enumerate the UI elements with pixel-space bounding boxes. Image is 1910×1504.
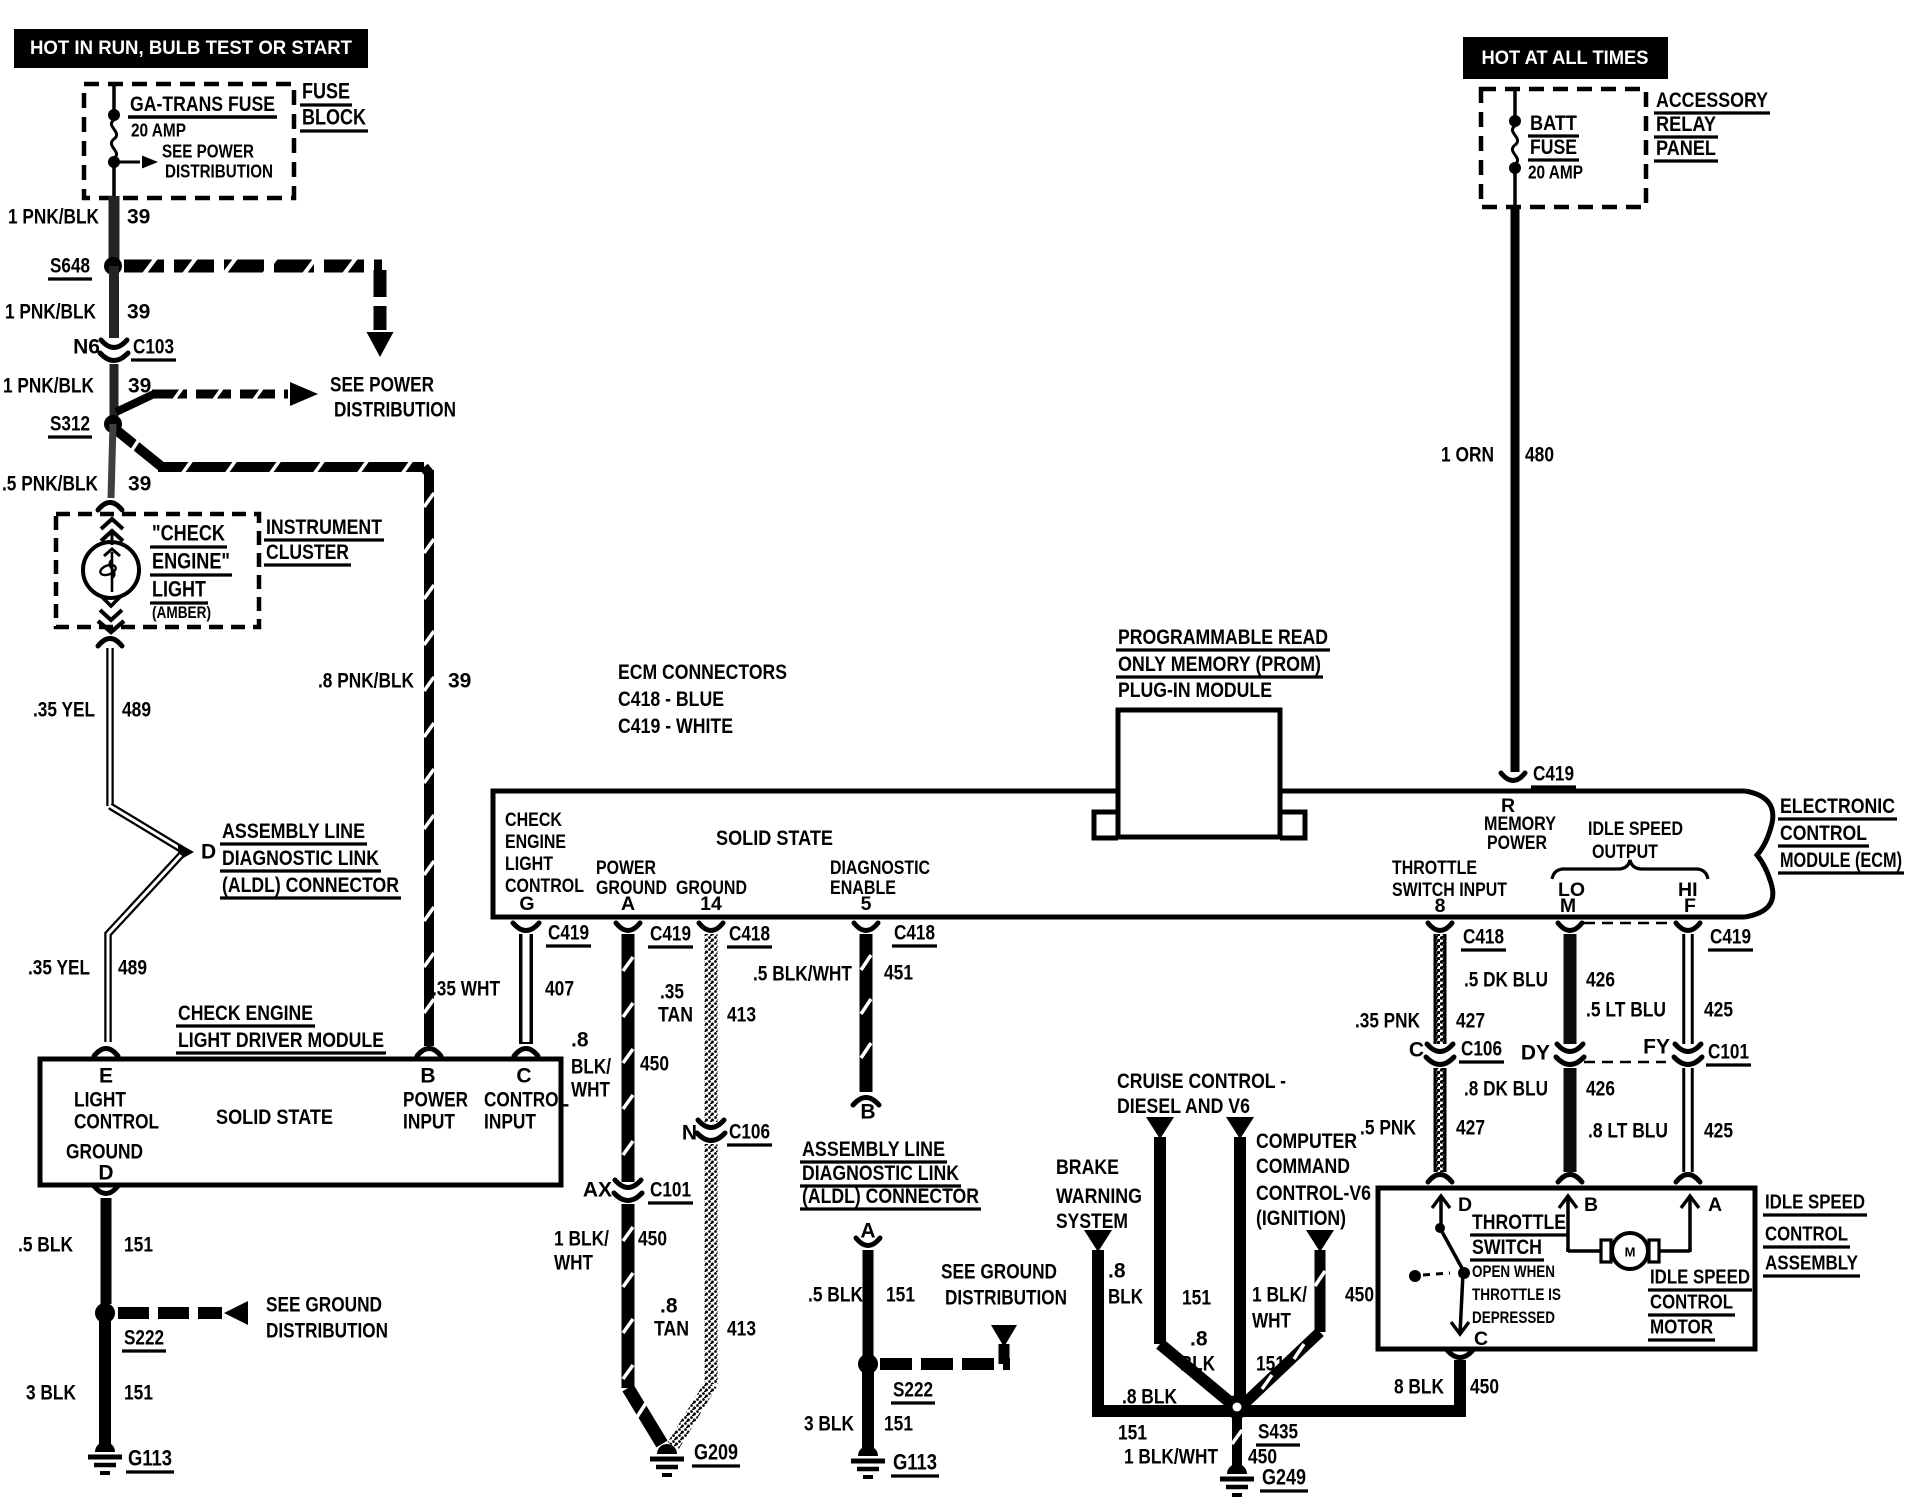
svg-text:C: C (1474, 1328, 1488, 1350)
wire .35 YEL 489 (cluster to ALDL D) (33, 648, 181, 849)
svg-text:G113: G113 (893, 1450, 937, 1475)
svg-text:WHT: WHT (1252, 1310, 1291, 1333)
connector C419 (R terminal) (1501, 763, 1576, 788)
wire 1 BLK/WHT 450 (S435 to G249) (1118, 1415, 1277, 1469)
svg-text:.5 PNK/BLK: .5 PNK/BLK (2, 473, 98, 496)
svg-text:DIAGNOSTIC LINK: DIAGNOSTIC LINK (802, 1161, 959, 1185)
svg-text:D: D (201, 841, 216, 864)
svg-text:(IGNITION): (IGNITION) (1256, 1206, 1346, 1230)
svg-text:1 PNK/BLK: 1 PNK/BLK (3, 375, 94, 398)
svg-text:SEE POWER: SEE POWER (330, 374, 434, 397)
svg-text:LIGHT: LIGHT (505, 853, 553, 875)
svg-text:450: 450 (640, 1053, 669, 1076)
svg-text:(AMBER): (AMBER) (152, 604, 211, 622)
svg-text:G209: G209 (694, 1440, 738, 1465)
svg-text:1 PNK/BLK: 1 PNK/BLK (5, 301, 96, 324)
svg-text:.8 LT BLU: .8 LT BLU (1588, 1120, 1668, 1143)
svg-text:BLK/: BLK/ (571, 1056, 611, 1079)
svg-text:S648: S648 (50, 255, 90, 278)
svg-text:151: 151 (124, 1234, 153, 1257)
wire 1 BLK/WHT 450 (ECM A to C101) (623, 934, 633, 1182)
svg-text:BLK: BLK (1180, 1353, 1215, 1376)
svg-text:DIAGNOSTIC: DIAGNOSTIC (830, 857, 930, 879)
wire .8 DK BLU 426 (DY to idle box B) (1464, 1068, 1615, 1182)
svg-text:427: 427 (1456, 1010, 1485, 1033)
check engine light driver module title (176, 1001, 386, 1053)
wire 3 BLK 151 (S222 to G113) (26, 1320, 153, 1446)
wire .8 LT BLU 425 (FY to idle box A) (1588, 1068, 1733, 1182)
svg-text:MOTOR: MOTOR (1650, 1316, 1713, 1339)
idle speed control motor label (1648, 1266, 1752, 1341)
svg-text:1 BLK/: 1 BLK/ (1252, 1284, 1307, 1307)
computer command control wire 1 BLK/WHT 450 (1246, 1230, 1374, 1402)
svg-text:C106: C106 (729, 1121, 770, 1144)
svg-text:C106: C106 (1461, 1038, 1502, 1061)
svg-text:WARNING: WARNING (1056, 1184, 1142, 1208)
svg-text:C419 - WHITE: C419 - WHITE (618, 714, 733, 738)
ALDL connector label (220, 819, 401, 898)
svg-text:S312: S312 (50, 413, 90, 436)
svg-text:MODULE (ECM): MODULE (ECM) (1780, 848, 1902, 872)
svg-text:DISTRIBUTION: DISTRIBUTION (334, 399, 456, 422)
throttle switch (1409, 1223, 1488, 1350)
svg-text:GA-TRANS FUSE: GA-TRANS FUSE (130, 92, 275, 116)
svg-text:151: 151 (1182, 1287, 1211, 1310)
svg-text:HOT AT ALL TIMES: HOT AT ALL TIMES (1482, 47, 1649, 69)
svg-text:LIGHT DRIVER MODULE: LIGHT DRIVER MODULE (178, 1028, 384, 1052)
electronic control module (ECM) box (493, 791, 1773, 917)
ECM label (1778, 794, 1904, 873)
svg-text:5: 5 (861, 893, 872, 915)
terminal D arrow (1432, 1194, 1472, 1224)
svg-text:TAN: TAN (654, 1318, 689, 1341)
wire .5 PNK/BLK 39 (S312 to cluster) (2, 424, 151, 498)
svg-text:SOLID STATE: SOLID STATE (216, 1105, 333, 1129)
svg-text:INPUT: INPUT (403, 1111, 455, 1134)
splice S222 (left) (95, 1303, 166, 1351)
see ground distribution link (middle) (880, 1261, 1067, 1365)
svg-text:451: 451 (884, 962, 913, 985)
.8 BLK/WHT 450 label (A wire upper) (571, 1029, 669, 1102)
wire .35 PNK 427 (ECM 8 to C106) (1355, 934, 1485, 1044)
connector C418 (terminal 8) (1428, 923, 1506, 950)
connector C418 (terminal 5) (854, 922, 937, 947)
see power distribution arrow (from S312) (116, 374, 456, 422)
svg-text:C418: C418 (1463, 926, 1504, 949)
PROM label (1116, 625, 1330, 702)
svg-text:ASSEMBLY LINE: ASSEMBLY LINE (222, 819, 365, 843)
svg-text:ONLY MEMORY (PROM): ONLY MEMORY (PROM) (1118, 652, 1321, 676)
svg-text:D: D (1458, 1194, 1472, 1216)
svg-text:151: 151 (1118, 1422, 1147, 1445)
svg-text:POWER: POWER (403, 1089, 468, 1112)
svg-text:SWITCH: SWITCH (1472, 1235, 1542, 1259)
wire .5 DK BLU 426 (ECM M to DY) (1464, 934, 1615, 1044)
svg-text:BLK: BLK (1108, 1286, 1143, 1309)
splice S435 (1225, 1395, 1300, 1445)
svg-text:.5 BLK/WHT: .5 BLK/WHT (753, 963, 852, 986)
svg-text:.35 PNK: .35 PNK (1355, 1010, 1420, 1033)
svg-text:450: 450 (1470, 1376, 1499, 1399)
svg-text:DY: DY (1521, 1042, 1550, 1065)
svg-text:BRAKE: BRAKE (1056, 1155, 1119, 1179)
wire .35 TAN 413 (ECM 14 to C106) (658, 934, 756, 1122)
instrument cluster box (56, 514, 384, 627)
svg-text:B: B (1584, 1194, 1598, 1216)
svg-text:G249: G249 (1262, 1465, 1306, 1490)
svg-text:.5 PNK: .5 PNK (1360, 1117, 1416, 1140)
header HOT AT ALL TIMES (1463, 37, 1668, 79)
svg-text:PLUG-IN MODULE: PLUG-IN MODULE (1118, 678, 1272, 702)
svg-text:C419: C419 (1710, 926, 1751, 949)
ALDL terminal A (856, 1220, 880, 1246)
svg-text:.8 PNK/BLK: .8 PNK/BLK (318, 670, 414, 693)
connector C418 (terminal 14) (699, 923, 772, 948)
svg-text:(ALDL) CONNECTOR: (ALDL) CONNECTOR (222, 873, 399, 897)
throttle switch label (1470, 1210, 1568, 1327)
svg-text:SEE POWER: SEE POWER (162, 141, 254, 162)
check engine light label (150, 521, 232, 623)
svg-text:THROTTLE: THROTTLE (1392, 857, 1477, 879)
svg-text:TAN: TAN (658, 1004, 693, 1027)
ground G249 (1220, 1464, 1308, 1495)
svg-text:413: 413 (727, 1004, 756, 1027)
svg-text:39: 39 (127, 206, 150, 229)
dashed link S648 to power distribution (arrow down) (124, 258, 394, 357)
svg-text:1 ORN: 1 ORN (1441, 444, 1494, 467)
PROM plug-in module box (1094, 710, 1305, 838)
svg-text:.5 DK BLU: .5 DK BLU (1464, 969, 1548, 992)
svg-text:G113: G113 (128, 1446, 172, 1471)
svg-text:C419: C419 (548, 922, 589, 945)
svg-text:IDLE SPEED: IDLE SPEED (1588, 818, 1683, 840)
svg-text:CRUISE CONTROL -: CRUISE CONTROL - (1117, 1069, 1286, 1093)
svg-text:CONTROL: CONTROL (1765, 1223, 1848, 1246)
splice S648 (48, 255, 122, 280)
wire .8 PNK/BLK 39 (S312 to driver module B) (115, 429, 471, 1046)
splice S312 (48, 413, 122, 438)
svg-text:S222: S222 (893, 1379, 933, 1402)
svg-text:20 AMP: 20 AMP (131, 120, 186, 141)
svg-text:413: 413 (727, 1318, 756, 1341)
svg-text:SOLID STATE: SOLID STATE (716, 826, 833, 850)
svg-text:ASSEMBLY: ASSEMBLY (1765, 1252, 1858, 1275)
svg-text:G: G (519, 893, 534, 915)
wire 1 ORN 480 (batt fuse to ECM R) (1441, 205, 1554, 772)
svg-text:INPUT: INPUT (484, 1111, 536, 1134)
svg-text:"CHECK: "CHECK (152, 521, 225, 546)
connector C106 (C) (1409, 1038, 1504, 1065)
connector (idle box C) (1447, 1350, 1473, 1358)
ground G209 (650, 1440, 740, 1476)
svg-text:DEPRESSED: DEPRESSED (1472, 1309, 1555, 1327)
svg-text:450: 450 (638, 1228, 667, 1251)
svg-text:FUSE: FUSE (302, 79, 350, 104)
svg-text:ECM CONNECTORS: ECM CONNECTORS (618, 660, 787, 684)
header HOT IN RUN BULB TEST OR START (14, 29, 368, 68)
svg-text:POWER: POWER (1487, 832, 1547, 854)
svg-text:AX: AX (583, 1179, 612, 1202)
svg-text:8: 8 (1435, 895, 1446, 917)
svg-text:PROGRAMMABLE READ: PROGRAMMABLE READ (1118, 625, 1328, 649)
svg-text:1 BLK/: 1 BLK/ (554, 1228, 609, 1251)
svg-text:GROUND: GROUND (66, 1141, 143, 1164)
svg-text:C418: C418 (729, 923, 770, 946)
svg-text:489: 489 (118, 957, 147, 980)
check engine light driver module box (40, 1059, 569, 1185)
svg-text:DISTRIBUTION: DISTRIBUTION (266, 1320, 388, 1343)
fuse block label (300, 79, 368, 132)
ground G113 (middle) (851, 1446, 939, 1477)
svg-text:.35: .35 (660, 981, 684, 1004)
svg-text:425: 425 (1704, 1120, 1733, 1143)
svg-text:ELECTRONIC: ELECTRONIC (1780, 794, 1895, 818)
svg-text:39: 39 (128, 473, 151, 496)
svg-text:CONTROL: CONTROL (74, 1111, 159, 1134)
accessory relay panel label (1654, 88, 1770, 161)
connector (cluster output) (98, 639, 122, 647)
connector (cluster input) (98, 503, 122, 511)
svg-text:IDLE SPEED: IDLE SPEED (1765, 1191, 1865, 1214)
svg-text:C418 - BLUE: C418 - BLUE (618, 687, 724, 711)
see ground distribution link (left) (118, 1294, 388, 1343)
connector DY (1521, 1042, 1666, 1065)
svg-text:C101: C101 (1708, 1041, 1749, 1064)
svg-text:480: 480 (1525, 444, 1554, 467)
svg-text:450: 450 (1345, 1284, 1374, 1307)
svg-text:1 BLK/WHT: 1 BLK/WHT (1124, 1446, 1218, 1469)
cruise control wire (left) 151 (1146, 1117, 1232, 1404)
svg-text:CONTROL-V6: CONTROL-V6 (1256, 1181, 1371, 1205)
svg-text:20 AMP: 20 AMP (1528, 162, 1583, 183)
svg-text:IDLE SPEED: IDLE SPEED (1650, 1266, 1750, 1289)
svg-text:.8 BLK: .8 BLK (1122, 1386, 1177, 1409)
svg-text:ACCESSORY: ACCESSORY (1656, 88, 1768, 112)
svg-text:POWER: POWER (596, 857, 656, 879)
svg-text:LIGHT: LIGHT (74, 1089, 126, 1112)
ECM internal labels (right) (1392, 795, 1708, 917)
svg-text:D: D (98, 1162, 113, 1185)
connector C106 (N) (682, 1120, 772, 1145)
svg-text:B: B (420, 1065, 435, 1088)
svg-text:CONTROL: CONTROL (505, 875, 584, 897)
svg-text:425: 425 (1704, 999, 1733, 1022)
svg-text:.5 LT BLU: .5 LT BLU (1586, 999, 1666, 1022)
svg-text:CONTROL: CONTROL (484, 1089, 569, 1112)
splice S222 (middle) (858, 1354, 935, 1403)
svg-text:INSTRUMENT: INSTRUMENT (266, 515, 382, 539)
svg-text:.8: .8 (1190, 1328, 1208, 1351)
wire 1 PNK/BLK 39 (S648 to C103) (5, 266, 150, 338)
svg-text:DIAGNOSTIC LINK: DIAGNOSTIC LINK (222, 846, 379, 870)
svg-text:C: C (516, 1065, 531, 1088)
svg-text:BLOCK: BLOCK (302, 105, 366, 130)
svg-text:DISTRIBUTION: DISTRIBUTION (945, 1287, 1067, 1310)
svg-text:.35 WHT: .35 WHT (432, 978, 500, 1001)
wire .5 BLK/WHT 451 (ECM 5 to ALDL B) (753, 934, 913, 1124)
svg-text:FUSE: FUSE (1530, 135, 1577, 159)
ALDL connector D terminal (178, 841, 216, 864)
wire 3 BLK 151 (S222 to G113 middle) (804, 1370, 913, 1450)
svg-text:A: A (860, 1220, 875, 1243)
svg-text:S222: S222 (124, 1327, 164, 1350)
svg-text:.5 BLK: .5 BLK (18, 1234, 73, 1257)
svg-text:SWITCH INPUT: SWITCH INPUT (1392, 879, 1507, 901)
svg-text:427: 427 (1456, 1117, 1485, 1140)
svg-text:SYSTEM: SYSTEM (1056, 1209, 1128, 1233)
svg-text:COMPUTER: COMPUTER (1256, 1129, 1357, 1153)
svg-text:3 BLK: 3 BLK (26, 1382, 76, 1405)
accessory relay panel (BATT FUSE 20A) (1481, 89, 1646, 207)
svg-text:E: E (99, 1065, 113, 1088)
cruise control label (1117, 1069, 1286, 1118)
connector C419 (terminal F) (1676, 923, 1753, 950)
svg-text:LIGHT: LIGHT (152, 577, 206, 602)
wire .35 WHT 407 (C419 to driver module C) (432, 922, 591, 1057)
connector C419 (terminal A) (616, 923, 693, 948)
wire 1 PNK/BLK 39 (fuse to S648) (8, 196, 150, 266)
svg-text:DISTRIBUTION: DISTRIBUTION (165, 161, 273, 182)
svg-text:.8: .8 (660, 1295, 678, 1318)
svg-text:OPEN WHEN: OPEN WHEN (1472, 1263, 1555, 1281)
brake warning system wire .8 BLK (1084, 1230, 1243, 1411)
svg-text:FY: FY (1643, 1036, 1670, 1059)
svg-text:F: F (1684, 895, 1696, 917)
svg-text:CONTROL: CONTROL (1650, 1291, 1733, 1314)
svg-text:.8 DK BLU: .8 DK BLU (1464, 1078, 1548, 1101)
svg-text:SEE GROUND: SEE GROUND (941, 1261, 1057, 1284)
svg-text:HOT IN RUN, BULB TEST OR STAR: HOT IN RUN, BULB TEST OR START (30, 37, 352, 59)
wire 1 BLK/WHT 450 (C101 to G209) (554, 1204, 667, 1444)
idle speed control assembly box (1378, 1188, 1755, 1349)
wire .5 BLK 151 (driver module D to S222) (18, 1186, 153, 1304)
svg-text:A: A (1708, 1194, 1722, 1216)
svg-text:151: 151 (124, 1382, 153, 1405)
fuse block (GA-TRANS FUSE 20A) (84, 84, 294, 198)
svg-text:C103: C103 (133, 336, 174, 359)
wire .8 PNK/BLK into B terminal connector (417, 1049, 441, 1057)
brake warning system label (1056, 1155, 1142, 1233)
idle speed control assembly label (1763, 1191, 1867, 1277)
ECM internal labels (left) (505, 809, 930, 915)
wire 8 BLK 450 (idle box C to S435) (1231, 1360, 1499, 1417)
svg-text:DIESEL AND V6: DIESEL AND V6 (1117, 1094, 1250, 1118)
wire .5 PNK 427 (C106 to idle box D) (1360, 1068, 1485, 1182)
svg-text:151: 151 (884, 1413, 913, 1436)
idle speed control motor (1568, 1233, 1690, 1269)
svg-text:C: C (1409, 1039, 1424, 1062)
svg-text:CONTROL: CONTROL (1780, 821, 1867, 845)
check engine light bulb (83, 519, 139, 632)
svg-text:N: N (682, 1122, 697, 1145)
wire .8 TAN 413 (C106 to G209) (654, 1144, 756, 1446)
wire .35 YEL 489 (ALDL D to driver module E) (28, 855, 181, 1042)
svg-text:14: 14 (700, 893, 722, 915)
svg-text:PANEL: PANEL (1656, 136, 1716, 160)
svg-text:THROTTLE IS: THROTTLE IS (1472, 1286, 1561, 1304)
svg-text:M: M (1625, 1245, 1636, 1260)
svg-text:B: B (860, 1101, 875, 1124)
svg-text:CLUSTER: CLUSTER (266, 540, 349, 564)
svg-text:39: 39 (448, 670, 471, 693)
svg-text:THROTTLE: THROTTLE (1472, 1210, 1566, 1234)
svg-text:1 PNK/BLK: 1 PNK/BLK (8, 206, 99, 229)
svg-text:(ALDL) CONNECTOR: (ALDL) CONNECTOR (802, 1184, 979, 1208)
svg-text:WHT: WHT (554, 1252, 593, 1275)
svg-text:.8: .8 (571, 1029, 589, 1052)
svg-text:COMMAND: COMMAND (1256, 1154, 1350, 1178)
svg-text:RELAY: RELAY (1656, 112, 1716, 136)
terminal A arrow (1681, 1194, 1722, 1250)
wire .5 LT BLU 425 (ECM F to FY) (1586, 934, 1733, 1044)
connector C103 (73, 336, 176, 361)
ALDL connector label (second) (800, 1137, 981, 1209)
svg-text:C419: C419 (1533, 763, 1574, 786)
svg-text:OUTPUT: OUTPUT (1592, 841, 1658, 863)
svg-text:BATT: BATT (1530, 111, 1577, 135)
svg-text:ENGINE: ENGINE (505, 831, 566, 853)
svg-text:N6: N6 (73, 336, 100, 359)
ECM connectors note (618, 660, 787, 738)
svg-text:M: M (1560, 895, 1576, 917)
svg-text:C418: C418 (894, 922, 935, 945)
svg-text:C419: C419 (650, 923, 691, 946)
svg-text:C101: C101 (650, 1179, 691, 1202)
svg-text:SEE GROUND: SEE GROUND (266, 1294, 382, 1317)
connector C101 (AX) (583, 1179, 693, 1204)
svg-text:489: 489 (122, 699, 151, 722)
svg-text:407: 407 (545, 978, 574, 1001)
driver module terminal E connector (94, 1049, 118, 1057)
svg-text:3 BLK: 3 BLK (804, 1413, 854, 1436)
svg-text:.5 BLK: .5 BLK (808, 1284, 863, 1307)
svg-text:151: 151 (886, 1284, 915, 1307)
svg-text:CHECK ENGINE: CHECK ENGINE (178, 1001, 313, 1025)
computer command control label (1256, 1129, 1371, 1230)
svg-text:ASSEMBLY LINE: ASSEMBLY LINE (802, 1137, 945, 1161)
svg-text:A: A (621, 893, 635, 915)
svg-text:.35 YEL: .35 YEL (28, 957, 90, 980)
svg-text:426: 426 (1586, 969, 1615, 992)
connector (terminal M) with dashed link (1558, 923, 1674, 931)
connector C101 (FY) (1643, 1036, 1751, 1066)
wire 1 PNK/BLK 39 (C103 to S312) (3, 364, 151, 424)
svg-text:WHT: WHT (571, 1079, 610, 1102)
terminal B arrow (1559, 1194, 1598, 1250)
svg-text:ENGINE": ENGINE" (152, 549, 230, 574)
wire .5 BLK 151 (ALDL A to S222) (808, 1250, 915, 1356)
cruise control wire (right) .8 BLK 151 (1180, 1117, 1285, 1398)
svg-text:S435: S435 (1258, 1421, 1298, 1444)
svg-text:39: 39 (127, 301, 150, 324)
svg-text:CHECK: CHECK (505, 809, 562, 831)
svg-text:426: 426 (1586, 1078, 1615, 1101)
svg-text:8 BLK: 8 BLK (1394, 1376, 1444, 1399)
ground G113 (left) (88, 1442, 174, 1473)
svg-text:.35 YEL: .35 YEL (33, 699, 95, 722)
svg-text:.8: .8 (1108, 1260, 1126, 1283)
